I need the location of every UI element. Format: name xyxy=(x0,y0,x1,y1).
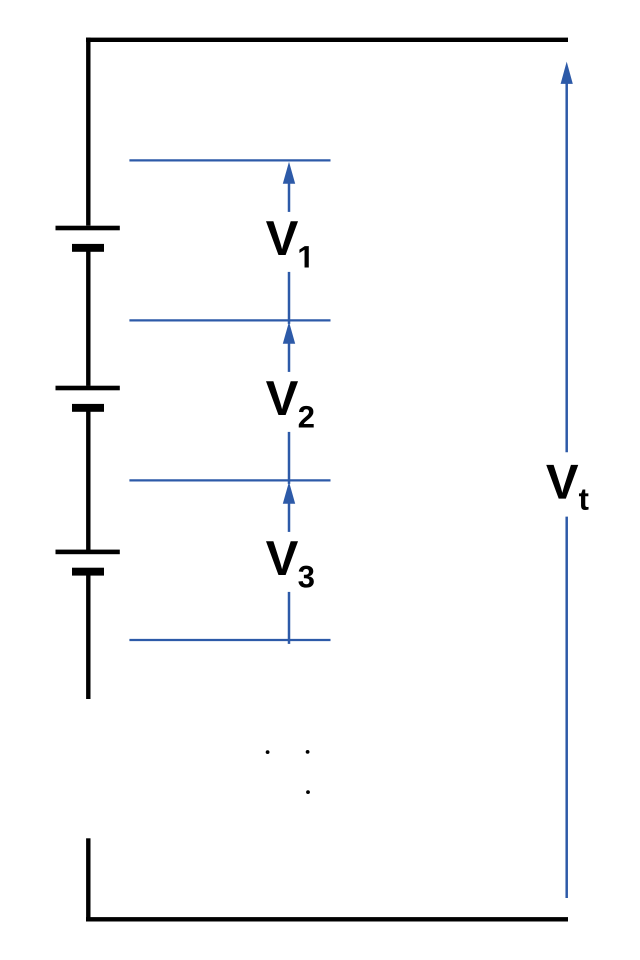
wire top xyxy=(86,38,568,42)
wire bottom xyxy=(86,917,568,921)
label V2 xyxy=(266,381,314,427)
wire below B3 (ends at break) xyxy=(86,575,90,699)
node line 4 (bottom of cell 3) xyxy=(129,639,330,641)
arrow V1 xyxy=(283,162,295,324)
wire left lower (after break to bottom corner) xyxy=(86,838,90,921)
wire between B2 and B3 xyxy=(86,412,90,551)
ellipsis dots (continuation of cells) xyxy=(266,750,310,794)
node line 1 (top of cell 1) xyxy=(129,159,330,161)
label V1 xyxy=(266,221,309,267)
arrow V3 xyxy=(283,482,295,644)
wire left upper (top corner to battery B1) xyxy=(86,38,90,226)
wire between B1 and B2 xyxy=(86,252,90,386)
battery B1 xyxy=(56,226,120,252)
node line 2 (between cell 1 and cell 2) xyxy=(129,319,330,321)
label V3 xyxy=(266,541,314,587)
battery B2 xyxy=(56,386,120,412)
arrow Vt (total voltage) xyxy=(561,62,573,898)
arrow V2 xyxy=(283,322,295,484)
node line 3 (between cell 2 and cell 3) xyxy=(129,479,330,481)
battery B3 xyxy=(56,550,120,576)
label Vt xyxy=(546,465,588,510)
